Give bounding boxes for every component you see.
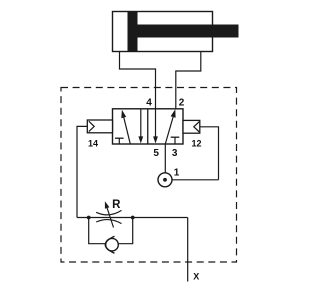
svg-text:R: R — [112, 199, 121, 211]
svg-text:14: 14 — [88, 138, 98, 148]
svg-text:1: 1 — [174, 168, 180, 179]
svg-text:X: X — [193, 272, 199, 282]
svg-text:3: 3 — [172, 148, 178, 159]
svg-text:5: 5 — [153, 148, 159, 159]
svg-text:4: 4 — [146, 98, 152, 109]
svg-text:2: 2 — [179, 98, 185, 109]
svg-text:12: 12 — [191, 138, 201, 148]
